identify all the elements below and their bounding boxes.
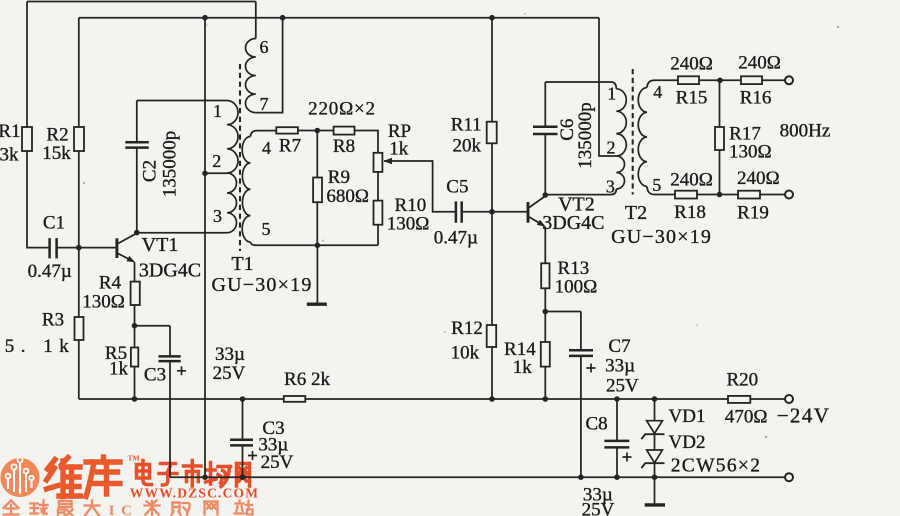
svg-text:15k: 15k	[42, 143, 71, 164]
svg-text:R20: R20	[726, 370, 758, 391]
svg-text:R4: R4	[99, 273, 122, 294]
svg-text:GU−30×19: GU−30×19	[211, 274, 312, 296]
svg-text:C5: C5	[446, 176, 468, 197]
svg-text:T2: T2	[625, 202, 647, 224]
svg-text:1: 1	[607, 83, 616, 103]
svg-text:3DG4C: 3DG4C	[542, 212, 604, 234]
svg-text:25V: 25V	[582, 500, 615, 516]
svg-text:R12: R12	[451, 318, 483, 339]
svg-text:C7: C7	[608, 336, 630, 357]
svg-text:130Ω: 130Ω	[82, 292, 125, 313]
svg-text:I: I	[109, 503, 115, 516]
svg-text:C3: C3	[144, 365, 166, 386]
svg-text:7: 7	[260, 94, 269, 114]
svg-text:3DG4C: 3DG4C	[139, 260, 201, 282]
svg-text:25V: 25V	[213, 363, 246, 384]
svg-text:0.47µ: 0.47µ	[434, 228, 478, 249]
svg-text:TM: TM	[128, 454, 140, 463]
svg-text:3: 3	[606, 177, 615, 197]
svg-text:R8: R8	[333, 136, 355, 157]
svg-text:R11: R11	[451, 115, 482, 136]
svg-text:GU−30×19: GU−30×19	[611, 226, 712, 248]
svg-text:2: 2	[212, 151, 221, 171]
svg-text:240Ω: 240Ω	[738, 53, 781, 74]
svg-text:R15: R15	[676, 87, 708, 108]
svg-text:135000p: 135000p	[575, 102, 596, 169]
svg-text:C8: C8	[586, 414, 608, 435]
svg-text:R6 2k: R6 2k	[284, 369, 330, 390]
svg-text:25V: 25V	[261, 452, 294, 473]
svg-text:R16: R16	[740, 88, 772, 109]
svg-text:0.47µ: 0.47µ	[28, 261, 72, 282]
svg-text:1k: 1k	[513, 357, 533, 378]
svg-text:VD2: VD2	[669, 432, 706, 453]
svg-text:WWW.DZSC.COM: WWW.DZSC.COM	[130, 486, 259, 501]
svg-text:5: 5	[652, 175, 661, 195]
svg-text:C: C	[121, 503, 132, 516]
svg-text:−24V: −24V	[777, 404, 831, 428]
svg-text:470Ω: 470Ω	[725, 407, 768, 428]
svg-text:25V: 25V	[606, 375, 639, 396]
svg-text:3: 3	[213, 206, 222, 226]
svg-text:R1: R1	[0, 121, 21, 142]
svg-text:680Ω: 680Ω	[326, 186, 369, 207]
svg-text:130Ω: 130Ω	[729, 142, 772, 163]
svg-text:4: 4	[653, 82, 662, 102]
svg-text:33µ: 33µ	[215, 344, 245, 365]
svg-text:R19: R19	[737, 203, 769, 224]
svg-text:240Ω: 240Ω	[670, 169, 713, 190]
svg-text:VD1: VD1	[669, 406, 706, 427]
svg-text:T1: T1	[231, 253, 253, 275]
svg-text:C1: C1	[43, 213, 65, 234]
svg-text:33µ: 33µ	[605, 356, 635, 377]
svg-text:5: 5	[262, 219, 271, 239]
svg-text:1k: 1k	[389, 138, 409, 159]
svg-text:R3: R3	[42, 310, 64, 331]
svg-text:2: 2	[607, 137, 616, 157]
svg-text:20k: 20k	[452, 136, 481, 157]
svg-text:R18: R18	[674, 202, 706, 223]
svg-text:1: 1	[213, 101, 222, 121]
svg-text:100Ω: 100Ω	[555, 276, 598, 297]
svg-text:220Ω×2: 220Ω×2	[308, 99, 376, 120]
svg-text:R9: R9	[328, 167, 350, 188]
svg-text:C2: C2	[139, 160, 160, 182]
svg-text:3k: 3k	[0, 145, 19, 166]
svg-text:800Hz: 800Hz	[780, 121, 831, 142]
svg-text:6: 6	[260, 37, 269, 57]
svg-text:4: 4	[262, 138, 271, 158]
svg-text:1k: 1k	[109, 359, 129, 380]
svg-text:135000p: 135000p	[160, 131, 181, 198]
svg-text:10k: 10k	[451, 343, 480, 364]
svg-text:2CW56×2: 2CW56×2	[671, 456, 762, 477]
svg-text:5. 1k: 5. 1k	[5, 336, 76, 357]
svg-text:R7: R7	[279, 136, 301, 157]
svg-text:130Ω: 130Ω	[387, 214, 430, 235]
svg-text:240Ω: 240Ω	[737, 168, 780, 189]
svg-text:VT1: VT1	[142, 234, 179, 256]
svg-text:240Ω: 240Ω	[670, 54, 713, 75]
